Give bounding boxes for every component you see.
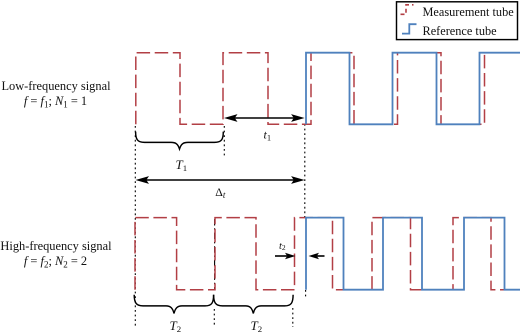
guide line x=305 (reference start) [304,124,307,298]
guide line x=293 (end of second T2) [292,308,294,327]
high-frequency measurement tube wave (red dashed) [135,218,520,290]
brace T2 second [214,295,294,314]
svg-text:Low-frequency signal: Low-frequency signal [1,79,111,93]
svg-text:T1: T1 [176,157,188,173]
svg-text:Reference tube: Reference tube [423,24,498,38]
brace T2 first [134,295,213,314]
legend measurement tube symbol (red dashed step) [401,5,414,15]
svg-text:t1: t1 [264,128,272,143]
t2 left arrow [275,253,296,259]
svg-text:f = f2; N2 = 2: f = f2; N2 = 2 [24,254,87,270]
svg-text:t2: t2 [279,241,286,252]
svg-text:Measurement tube: Measurement tube [423,5,515,19]
delta-t double arrow [136,176,305,184]
high-frequency reference tube wave (blue solid) [306,218,520,290]
svg-text:T2: T2 [251,318,263,334]
legend reference tube symbol (blue step) [402,24,417,33]
brace T1 [136,132,224,149]
svg-text:f = f1; N1 = 1: f = f1; N1 = 1 [24,94,87,110]
low-frequency measurement tube wave (red dashed) [136,53,520,125]
svg-text:Δt: Δt [215,185,226,200]
guide line x=214 (end of first T2) [214,219,216,290]
guide line x=224 (end of T1) [223,126,225,157]
low-frequency reference tube wave (blue solid) [306,53,520,125]
t2 right arrow [309,253,325,259]
t1 double arrow [224,114,305,122]
svg-text:High-frequency signal: High-frequency signal [0,239,112,253]
svg-text:T2: T2 [170,318,182,334]
legend box [397,2,518,40]
guide line x=135 (start of signals) [134,126,136,326]
